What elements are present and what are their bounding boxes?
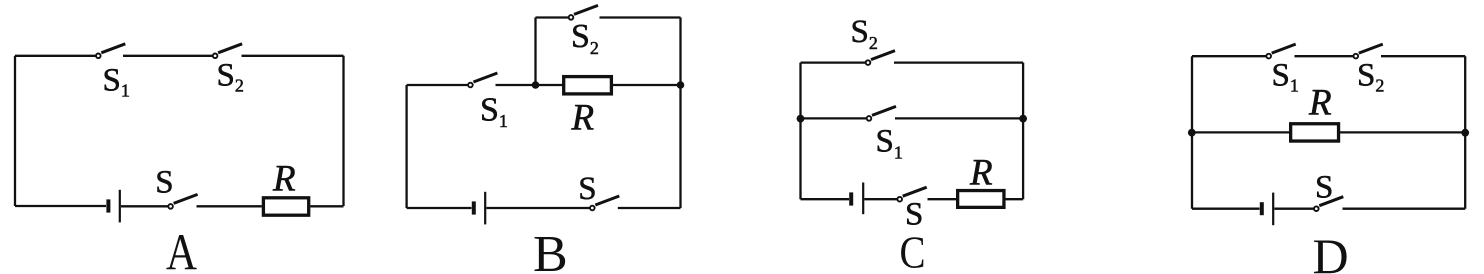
circuit A wire switch to resistor [197,205,262,207]
svg-text:R: R [571,97,595,138]
svg-text:S2: S2 [217,58,244,96]
svg-text:S: S [155,164,173,200]
node right (circuit C) [1019,115,1027,123]
resistor R (circuit A) [263,198,308,215]
circuit B wire switch S1 to node [496,84,536,86]
circuit B S2 branch wire right [600,16,681,18]
svg-text:S1: S1 [1272,57,1299,95]
circuit D wire switch to corner [1343,208,1466,210]
circuit A top wire segment mid [123,55,212,57]
circuit A wire resistor to corner [310,205,343,207]
switch S2 (circuit D) [1354,44,1383,58]
circuit A bottom wire to battery [15,205,106,207]
svg-text:R: R [1308,83,1332,124]
node right (circuit B) [677,81,685,89]
switch S1 (circuit B) [468,73,497,87]
circuit A top wire segment right [242,55,344,57]
svg-text:C: C [900,228,926,274]
circuit B wire resistor to right node [613,84,681,86]
circuit B top wire segment left [407,84,468,86]
switch S2 (circuit C) [866,51,895,65]
circuit C wire switch to resistor [928,198,957,200]
circuit A top wire segment left [15,55,96,57]
switch S (circuit A) [168,194,197,208]
switch S1 (circuit A) [96,44,125,58]
circuit C top wire segment right [894,61,1023,63]
circuit D top wire segment mid [1295,55,1354,57]
circuit D top wire segment left [1192,55,1266,57]
svg-text:S2: S2 [1357,57,1384,95]
svg-text:D: D [1313,228,1349,274]
circuit D top wire segment right [1381,55,1465,57]
svg-text:A: A [166,224,197,274]
node left (circuit B) [532,81,540,89]
switch S2 (circuit B) [569,5,598,19]
circuit C wire resistor to corner [1006,198,1024,200]
circuit D middle wire segment left [1192,131,1290,133]
circuit B S2 branch right riser [679,18,681,86]
node left (circuit C) [797,115,805,123]
svg-text:R: R [272,158,296,199]
circuit B wire switch to corner [618,207,681,209]
svg-text:S: S [578,171,596,207]
svg-text:S: S [1315,170,1333,206]
circuit D wire battery to switch S [1274,208,1313,210]
circuit D left wire [1191,56,1193,209]
circuit A wire battery to switch S [121,205,168,207]
circuit D bottom wire to battery [1192,208,1260,210]
svg-text:S2: S2 [851,14,878,53]
circuit A right wire [342,56,344,206]
circuit C middle wire segment right [895,117,1023,119]
switch S1 (circuit D) [1266,44,1295,58]
svg-text:S1: S1 [876,123,903,162]
circuit C left wire [799,63,801,200]
switch S (circuit B) [590,196,619,210]
node left (circuit D) [1188,129,1196,137]
circuit C middle wire segment left [801,117,867,119]
battery (circuit D) [1262,193,1273,226]
circuit C wire battery to switch S [864,198,897,200]
circuit C top wire segment left [801,61,866,63]
circuit B bottom wire to battery [407,207,472,209]
circuit B S2 branch wire left [536,16,569,18]
battery (circuit B) [474,192,485,225]
switch S1 (circuit C) [867,106,896,120]
battery (circuit A) [108,190,119,223]
switch S (circuit D) [1314,197,1343,211]
resistor R (circuit D) [1291,124,1339,141]
resistor R (circuit C) [958,191,1004,208]
circuit C right wire [1022,63,1024,200]
circuit A frame: left wire [14,56,16,206]
switch S2 (circuit A) [213,44,242,58]
circuit D middle wire segment right [1340,131,1465,133]
resistor R (circuit B) [564,77,612,94]
svg-text:S2: S2 [571,18,599,58]
svg-text:S1: S1 [103,62,130,100]
circuit C bottom wire to battery [801,198,850,200]
circuit D right wire [1464,56,1466,209]
circuit B wire battery to switch S [486,207,589,209]
svg-text:R: R [969,152,993,193]
circuit B wire node to resistor [536,84,564,86]
svg-text:S1: S1 [480,91,508,131]
svg-text:B: B [533,226,568,274]
node right (circuit D) [1461,129,1469,137]
circuit B right wire [679,85,681,208]
circuit B S2 branch left riser [534,18,536,86]
switch S (circuit C) [897,187,926,201]
circuit B left wire [405,85,407,208]
battery (circuit C) [851,183,863,215]
